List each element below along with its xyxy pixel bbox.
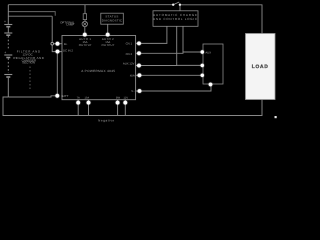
- battery BT1: [4, 5, 12, 97]
- wire converter pin4 to relay pin3: [136, 74, 203, 76]
- node auto2 top pin: [106, 33, 110, 37]
- svg-text:OUTPUT: OUTPUT: [79, 43, 92, 47]
- label auto 1: [79, 37, 115, 47]
- node right pin2: [137, 51, 141, 55]
- node right pin1: [137, 42, 141, 46]
- connector open circle: [51, 42, 54, 45]
- svg-text:V−: V−: [131, 89, 135, 93]
- wire connector loop to DC pin: [52, 45, 62, 52]
- svg-text:AUX: AUX: [205, 51, 211, 55]
- svg-text:BATT: BATT: [61, 94, 68, 98]
- wire top rail right: [180, 5, 262, 34]
- wire branch to relay pin2: [177, 64, 203, 66]
- wire bottom pin1 to bus: [77, 100, 79, 116]
- node bottom pin3: [116, 101, 120, 105]
- svg-text:12V: 12V: [123, 97, 128, 100]
- artifact dot bottom right: [275, 116, 277, 118]
- dashed link from filter note: [29, 67, 31, 90]
- wire converter pin2 to control box: [136, 26, 183, 53]
- note: filter text block: [13, 50, 44, 65]
- wire battery positive rail lower: [8, 15, 52, 17]
- svg-text:AND CONTROL LOGIC: AND CONTROL LOGIC: [153, 17, 198, 21]
- svg-text:DIAGNOSTIC: DIAGNOSTIC: [102, 18, 123, 22]
- svg-text:LAMP: LAMP: [66, 23, 74, 27]
- note: optional lamp: [60, 20, 75, 26]
- svg-text:DC IN 2: DC IN 2: [63, 48, 73, 52]
- node bottom pin1: [76, 101, 80, 105]
- wire converter V- to relay bottom: [136, 84, 211, 91]
- node bottom pin4: [123, 101, 127, 105]
- wire top rail left: [8, 4, 173, 6]
- svg-text:SECTION: SECTION: [22, 61, 35, 65]
- wire drop to connector: [51, 16, 53, 42]
- wire lamp drop from rail: [84, 5, 86, 14]
- wire control box branch to relay pin1: [183, 51, 202, 53]
- svg-text:15A: 15A: [84, 97, 89, 100]
- node B+ pin: [56, 42, 60, 46]
- wire bottom pin2 to bus: [88, 100, 90, 116]
- svg-text:+: +: [4, 51, 6, 55]
- node battery junction: [55, 94, 59, 98]
- node relay pin3: [201, 74, 204, 77]
- svg-text:A POWERMAX 4045: A POWERMAX 4045: [81, 69, 115, 73]
- svg-text:+: +: [4, 19, 6, 23]
- wire battery negative to junction: [8, 96, 57, 97]
- relay aux box K1: [203, 44, 223, 84]
- svg-text:OUTPUT: OUTPUT: [102, 43, 115, 47]
- fuse F1: [83, 14, 86, 20]
- svg-text:Negative: Negative: [98, 118, 115, 122]
- node right pin4: [138, 73, 142, 77]
- switch S1: [172, 2, 181, 6]
- wire converter pin3 to control box: [136, 26, 177, 65]
- wire bottom pin3 to bus: [117, 100, 119, 116]
- node relay pin1: [201, 50, 204, 53]
- wire switch to control box: [179, 5, 181, 11]
- status diagnostic box: [101, 13, 124, 24]
- svg-text:45A: 45A: [130, 73, 135, 77]
- svg-text:B+: B+: [64, 42, 68, 46]
- node DC pin: [56, 50, 60, 54]
- svg-text:CN 1: CN 1: [126, 41, 133, 45]
- wire negative loop to bottom bus: [3, 97, 262, 116]
- wire battery positive rail upper: [8, 12, 55, 16]
- wire fuse to lamp: [84, 20, 86, 22]
- junction and pin dots: [55, 33, 212, 105]
- node right pin3: [137, 64, 141, 68]
- node bottom pin2: [87, 101, 91, 105]
- wire DC pin down to battery junction: [56, 52, 58, 96]
- load box: [246, 34, 276, 100]
- wire converter pin1 to control box: [136, 26, 167, 43]
- node relay bottom pin: [209, 83, 213, 87]
- svg-text:CN 2: CN 2: [126, 52, 133, 56]
- node relay pin2: [201, 64, 204, 67]
- wire bottom pin4 to bus: [124, 100, 126, 116]
- svg-text:LOAD: LOAD: [252, 64, 269, 70]
- svg-text:7A: 7A: [77, 97, 80, 100]
- wire status box to converter top: [107, 24, 109, 35]
- wire lamp to converter top: [84, 27, 86, 36]
- svg-text:AUX 12V: AUX 12V: [123, 61, 135, 65]
- control logic box U2: [153, 11, 198, 26]
- lamp DS1: [82, 21, 87, 26]
- svg-text:BW: BW: [116, 97, 121, 100]
- node right pin V-: [138, 89, 142, 93]
- node auto1 top pin: [83, 33, 87, 37]
- converter main box U1: [62, 36, 136, 100]
- wire connector to B+ pin: [54, 43, 62, 45]
- label 7A: [77, 97, 129, 100]
